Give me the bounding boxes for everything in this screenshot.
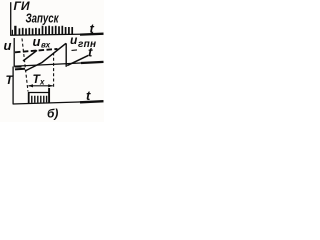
- plot1 vertical axis: [10, 2, 12, 35]
- svg-text:u: u: [70, 33, 78, 47]
- plot3 vertical axis: [12, 66, 14, 104]
- gate pulse top: [28, 91, 50, 93]
- svg-text:гпн: гпн: [78, 39, 96, 50]
- dashed marker line 2 (comparator crossing): [53, 53, 55, 89]
- plot3 time axis thick right end: [80, 101, 104, 102]
- svg-text:u: u: [4, 38, 12, 53]
- Tx arrow right head: [48, 84, 53, 87]
- svg-text:Запуск: Запуск: [26, 10, 60, 25]
- second partial ramp: [67, 55, 88, 65]
- short ramp segment: [23, 50, 37, 61]
- counted pulse comb in gate: [32, 96, 47, 103]
- svg-text:u: u: [33, 34, 41, 49]
- main ramp u_gpn: [25, 43, 66, 71]
- svg-text:вх: вх: [41, 40, 51, 49]
- svg-text:t: t: [90, 21, 95, 36]
- plot2 time axis: [14, 62, 104, 66]
- Tx arrow left head: [28, 84, 33, 87]
- plot1 clock pulse comb: [19, 26, 72, 35]
- dashed marker line 1 (ramp start): [22, 38, 28, 91]
- gate pulse falling edge: [48, 88, 50, 103]
- svg-text:x: x: [39, 77, 45, 86]
- plot1 small tick before trigger: [11, 30, 13, 35]
- u_gpn leader dash: [72, 49, 78, 52]
- plot1 trigger pulse: [14, 26, 16, 35]
- u_vx dashed level line: [15, 49, 58, 52]
- gate pulse rising edge: [28, 92, 30, 103]
- plot2 vertical axis: [13, 38, 15, 67]
- ramp vertical drop: [65, 43, 67, 67]
- plot2 time axis thick right end: [81, 62, 104, 63]
- plot1 time axis thick right end: [80, 33, 104, 36]
- plot3 time axis: [13, 101, 104, 104]
- svg-text:б): б): [47, 106, 58, 120]
- svg-text:t: t: [86, 88, 91, 103]
- ramp lower corner mark: [15, 66, 22, 68]
- ramp start flat bottom level: [15, 68, 25, 71]
- plot1 time axis: [10, 34, 103, 35]
- Tx arrow line: [28, 85, 52, 87]
